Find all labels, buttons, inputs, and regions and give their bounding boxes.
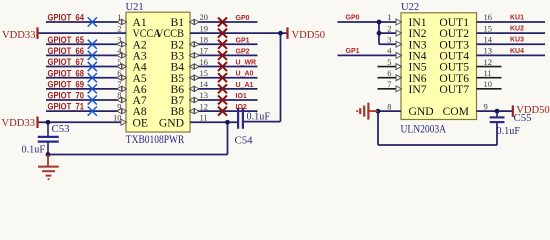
svg-text:19: 19 [200, 23, 209, 33]
ground symbol (sideways, U22 pin 8) [357, 103, 378, 120]
U21 pin number 11 [200, 112, 208, 122]
U22 pin number 14 [484, 34, 493, 44]
junction VDD50/C54 [278, 31, 283, 36]
svg-text:COM: COM [443, 105, 469, 118]
stub U22 IN5 [378, 66, 402, 68]
no-ERC marker (blue X) on GPIOT_70 [88, 95, 97, 104]
svg-text:GPIOT_68: GPIOT_68 [48, 68, 85, 78]
svg-text:U_A1: U_A1 [236, 82, 254, 89]
U21 pin number 6 [117, 68, 121, 78]
U21 pin name GND [159, 116, 184, 129]
wire VDD50 junction down to C54 [243, 33, 280, 121]
svg-text:C54: C54 [235, 135, 254, 147]
junction pin8/ground [376, 109, 381, 114]
U21 pin number 8 [117, 90, 121, 100]
U22 input pin glyph IN2 [396, 30, 402, 36]
wire stub U21 right row 6 [190, 77, 258, 79]
U22 pin name IN3 [409, 38, 427, 51]
C54 designator [235, 135, 254, 147]
U21 pin number 2 [117, 23, 121, 33]
svg-text:11: 11 [200, 112, 208, 122]
net label GPIOT_66 [48, 46, 85, 56]
wire GP0 vertical tie IN1-IN3 [378, 22, 380, 44]
U22 pin number 9 [484, 101, 488, 111]
svg-text:6: 6 [387, 68, 391, 78]
wire net KU3 from U22 pin 14 [477, 43, 546, 45]
U22 pin name GND [409, 105, 434, 118]
svg-text:10: 10 [113, 112, 122, 122]
power port VDD33 (top) [2, 27, 38, 41]
svg-text:13: 13 [200, 90, 209, 100]
svg-text:U21: U21 [126, 2, 144, 13]
U22 pin name OUT1 [439, 16, 469, 29]
svg-text:GPIOT_71: GPIOT_71 [48, 102, 85, 112]
svg-text:1: 1 [117, 12, 121, 22]
svg-text:GPIOT_70: GPIOT_70 [48, 91, 85, 101]
wire net GPIOT_70 to U21 pin [46, 99, 126, 101]
net label GPIOT_70 [48, 91, 85, 101]
U21 pin name A3 [133, 50, 147, 63]
svg-text:8: 8 [387, 101, 391, 111]
U21 pin number 18 [200, 34, 209, 44]
wire ground rail bottom left [48, 154, 228, 156]
svg-text:GP1: GP1 [346, 48, 360, 55]
U21 pin name B3 [170, 50, 184, 63]
U21 pin name B2 [170, 38, 184, 51]
svg-text:KU4: KU4 [510, 48, 524, 55]
svg-text:16: 16 [200, 57, 209, 67]
svg-text:OUT7: OUT7 [439, 83, 469, 96]
U21 pin number 4 [117, 46, 122, 56]
wire net GPIOT_68 to U21 pin [46, 77, 126, 79]
junction tie/IN2 [377, 31, 382, 36]
svg-text:10: 10 [484, 79, 493, 89]
svg-text:GPIOT_69: GPIOT_69 [48, 79, 85, 89]
svg-text:U22: U22 [401, 2, 419, 13]
svg-text:C53: C53 [52, 123, 70, 135]
wire U22 pin 9 COM to VDD50 [477, 110, 513, 112]
U21 pin name B8 [170, 105, 184, 118]
U21 pin number 15 [200, 68, 209, 78]
U22 pin name IN5 [409, 61, 427, 74]
U22 pin number 7 [387, 79, 391, 89]
no-ERC marker (blue X) on GPIOT_68 [88, 73, 97, 82]
U21 bidirectional pin glyph row 1 left [117, 19, 127, 24]
wire U22 pin 8 GND [378, 110, 401, 112]
U21 pin name A8 [133, 105, 147, 118]
C53 designator [52, 123, 70, 135]
wire stub U21 right row 4 [190, 54, 258, 56]
no-ERC marker (red X) U21 right row 2 [218, 29, 227, 38]
U21 bidirectional pin glyph row 1 right [190, 19, 200, 24]
U22 pin number 8 [387, 101, 391, 111]
net label U_A0 [236, 71, 254, 78]
net label GPIOT_67 [48, 57, 85, 67]
svg-text:KU3: KU3 [510, 37, 524, 44]
net label GPIOT_64 [48, 13, 85, 23]
svg-text:11: 11 [484, 68, 492, 78]
U22 pin number 2 [387, 23, 391, 33]
U21 pin number 20 [200, 12, 209, 22]
U21 bidirectional pin glyph row 8 left [117, 97, 127, 102]
no-ERC marker (red X) U21 right row 5 [218, 62, 227, 71]
svg-text:IO2: IO2 [236, 104, 247, 111]
U21 pin name A6 [133, 83, 147, 96]
no-ERC marker (blue X) on GPIOT_64 [88, 17, 97, 26]
U22 designator [401, 2, 419, 13]
C55 value 0.1uF [497, 126, 521, 137]
U21 pin number 10 [113, 112, 122, 122]
wire net GP0 to U22 IN1 [338, 21, 402, 23]
U22 pin number 10 [484, 79, 493, 89]
U21 bidirectional pin glyph row 7 right [190, 86, 200, 91]
stub U22 IN6 [378, 77, 402, 79]
wire net KU4 from U22 pin 13 [477, 54, 546, 56]
stub U22 OUT5 [477, 66, 502, 68]
no-ERC marker (blue X) on GPIOT_66 [88, 51, 97, 60]
net label IO2 [236, 104, 247, 111]
net label GPIOT_71 [48, 102, 85, 112]
U21 pin number 16 [200, 57, 209, 67]
U21 pin name A1 [133, 16, 147, 29]
capacitor C53 [38, 122, 59, 154]
no-ERC marker (blue X) on GPIOT_69 [88, 84, 97, 93]
svg-text:1: 1 [387, 12, 391, 22]
wire U21 pin 19 VCCB to VDD50 [190, 32, 288, 34]
svg-text:GPIOT_64: GPIOT_64 [48, 13, 85, 23]
svg-text:3: 3 [387, 34, 391, 44]
no-ERC marker (red X) U21 right row 1 [218, 18, 227, 27]
wire rail up to C55 [496, 123, 498, 145]
U21 bidirectional pin glyph row 9 right [190, 109, 200, 114]
power port VDD33 (bottom) [1, 117, 37, 130]
U22 pin number 15 [484, 23, 493, 33]
net label GPIOT_69 [48, 79, 85, 89]
svg-text:2: 2 [387, 23, 391, 33]
wire stub U21 right row 9 [190, 110, 258, 112]
no-ERC marker (blue X) on GPIOT_65 [88, 40, 97, 49]
U21 pin number 12 [200, 101, 209, 111]
wire net GPIOT_69 to U21 pin [46, 88, 126, 90]
junction pin11/ground rail [225, 120, 230, 125]
U21 pin name A2 [133, 38, 147, 51]
wire pin8 down to bottom rail [377, 111, 379, 145]
svg-text:IN7: IN7 [409, 83, 427, 96]
U22 pin name OUT5 [439, 61, 469, 74]
wire tie to IN2 [379, 32, 401, 34]
svg-text:5: 5 [387, 57, 391, 67]
U22 pin number 12 [484, 57, 493, 67]
wire VDD33 to U21 pin 10 OE [38, 121, 127, 123]
U21 pin name OE [133, 116, 148, 129]
svg-text:ULN2003A: ULN2003A [401, 123, 447, 135]
IC U21 TXB0108PWR body [126, 12, 190, 132]
svg-text:0.1uF: 0.1uF [497, 126, 521, 137]
svg-text:18: 18 [200, 34, 209, 44]
U21 pin number 14 [200, 79, 209, 89]
net label KU4 [510, 48, 524, 55]
U21 bidirectional pin glyph row 7 left [117, 86, 127, 91]
U22 pin number 11 [484, 68, 492, 78]
U22 pin name COM [443, 105, 469, 118]
svg-text:5: 5 [117, 57, 121, 67]
U21 bidirectional pin glyph row 6 left [117, 75, 127, 80]
U21 pin name B6 [170, 83, 184, 96]
U21 pin name B4 [170, 61, 184, 74]
svg-text:17: 17 [200, 46, 209, 56]
U21 comment TXB0108PWR [126, 134, 185, 146]
wire tie to IN3 [379, 43, 401, 45]
U21 pin number 9 [117, 101, 121, 111]
U22 pin name OUT2 [439, 27, 469, 40]
U22 pin name IN6 [409, 72, 427, 85]
wire stub U21 right row 5 [190, 66, 258, 68]
U21 pin number 3 [117, 34, 121, 44]
C54 value 0.1uF [247, 112, 271, 123]
U21 bidirectional pin glyph row 8 right [190, 97, 200, 102]
U22 pin number 1 [387, 12, 391, 22]
junction COM/C55 [495, 109, 500, 114]
U21 pin number 19 [200, 23, 209, 33]
power port VDD50 (bottom) [513, 105, 550, 117]
net label GP1 (U22) [346, 48, 360, 55]
U22 input pin glyph IN4 [396, 52, 402, 58]
net label U_WR [236, 60, 257, 67]
svg-text:GP1: GP1 [236, 37, 250, 44]
U22 input pin glyph IN1 [396, 19, 402, 25]
svg-text:9: 9 [484, 101, 488, 111]
U21 bidirectional pin glyph row 6 right [190, 75, 200, 80]
wire net GPIOT_65 to U21 pin [46, 43, 126, 45]
svg-text:12: 12 [484, 57, 493, 67]
net label GP1 [236, 37, 250, 44]
U22 pin number 16 [484, 12, 493, 22]
svg-text:13: 13 [484, 46, 493, 56]
svg-text:GPIOT_65: GPIOT_65 [48, 35, 85, 45]
net label U_A1 [236, 82, 254, 89]
U22 pin name OUT3 [439, 38, 469, 51]
svg-text:VDD33: VDD33 [2, 30, 36, 41]
wire VDD33 to U21 pin 2 VCCA [38, 32, 127, 34]
U22 pin name OUT6 [439, 72, 469, 85]
wire net KU2 from U22 pin 15 [477, 32, 546, 34]
U21 pin number 17 [200, 46, 209, 56]
U21 pin name B1 [170, 16, 184, 29]
svg-text:9: 9 [117, 101, 121, 111]
net label GP2 [236, 48, 250, 55]
svg-text:20: 20 [200, 12, 209, 22]
svg-text:14: 14 [200, 79, 209, 89]
U22 pin number 6 [387, 68, 391, 78]
U22 input pin glyph IN5 [396, 64, 402, 70]
wire net GPIOT_66 to U21 pin [46, 54, 126, 56]
U21 input pin glyph OE [121, 119, 127, 125]
wire U21 pin 11 GND [190, 121, 238, 123]
U21 pin name VCCB [156, 27, 184, 40]
svg-text:GP0: GP0 [236, 15, 250, 22]
U22 pin name IN1 [409, 16, 427, 29]
svg-text:7: 7 [387, 79, 391, 89]
svg-text:TXB0108PWR: TXB0108PWR [126, 134, 185, 146]
net label KU1 [510, 14, 524, 21]
net label KU3 [510, 37, 524, 44]
U22 pin number 13 [484, 46, 493, 56]
U21 bidirectional pin glyph row 3 right [190, 42, 200, 47]
svg-text:GND: GND [409, 105, 434, 118]
svg-text:16: 16 [484, 12, 493, 22]
junction GP0/IN1 [377, 20, 382, 25]
IC U22 ULN2003A body [401, 13, 477, 120]
U21 pin name A7 [133, 94, 147, 107]
svg-text:GPIOT_67: GPIOT_67 [48, 57, 85, 67]
U22 pin name IN4 [409, 50, 427, 63]
no-ERC marker (red X) U21 right row 6 [218, 73, 227, 82]
U21 pin number 1 [117, 12, 121, 22]
stub U22 OUT7 [477, 88, 502, 90]
svg-text:15: 15 [200, 68, 209, 78]
net label GPIOT_68 [48, 68, 85, 78]
svg-text:U_A0: U_A0 [236, 71, 254, 78]
net label KU2 [510, 26, 524, 33]
stub U22 IN7 [378, 88, 402, 90]
net label GP0 (U22) [346, 14, 360, 21]
U22 pin name IN7 [409, 83, 427, 96]
U22 input pin glyph IN3 [396, 41, 402, 47]
svg-text:2: 2 [117, 23, 121, 33]
svg-text:KU2: KU2 [510, 26, 524, 33]
wire net GPIOT_71 to U21 pin [46, 110, 126, 112]
wire stub U21 right row 7 [190, 88, 258, 90]
svg-text:GND: GND [159, 116, 184, 129]
wire net GP1 to U22 IN4 [338, 54, 402, 56]
U21 bidirectional pin glyph row 9 left [117, 109, 127, 114]
svg-text:0.1uF: 0.1uF [22, 145, 46, 156]
U22 input pin glyph IN6 [396, 75, 402, 81]
svg-text:OE: OE [133, 116, 148, 129]
svg-text:VDD33: VDD33 [1, 118, 35, 129]
no-ERC marker (blue X) on GPIOT_71 [88, 107, 97, 116]
stub U22 OUT6 [477, 77, 502, 79]
U22 input pin glyph IN7 [396, 86, 402, 92]
C55 designator [514, 112, 532, 124]
no-ERC marker (red X) U21 right row 4 [218, 51, 227, 60]
svg-text:0.1uF: 0.1uF [247, 112, 271, 123]
power port VDD50 (top) [288, 27, 326, 41]
ground symbol (bottom left) [38, 155, 59, 180]
svg-text:15: 15 [484, 23, 493, 33]
U21 bidirectional pin glyph row 3 left [117, 42, 127, 47]
wire net GPIOT_64 to U21 pin [46, 21, 126, 23]
wire pin11 junction down to rail [227, 122, 229, 154]
U21 pin name A4 [133, 61, 147, 74]
svg-text:IO1: IO1 [236, 93, 247, 100]
svg-text:6: 6 [117, 68, 121, 78]
U22 pin number 4 [387, 46, 392, 56]
net label GPIOT_65 [48, 35, 85, 45]
svg-text:U_WR: U_WR [236, 60, 257, 67]
junction C53 to ground rail [46, 152, 51, 157]
U21 bidirectional pin glyph row 4 left [117, 53, 127, 58]
U21 designator [126, 2, 144, 13]
svg-text:3: 3 [117, 34, 121, 44]
U22 pin number 3 [387, 34, 391, 44]
no-ERC marker (red X) U21 right row 3 [218, 40, 227, 49]
U21 pin number 13 [200, 90, 209, 100]
no-ERC marker (red X) U21 right row 9 [218, 107, 227, 116]
net label IO1 [236, 93, 247, 100]
no-ERC marker (red X) U21 right row 7 [218, 84, 227, 93]
svg-text:GP2: GP2 [236, 48, 250, 55]
U21 bidirectional pin glyph row 4 right [190, 53, 200, 58]
svg-text:VDD50: VDD50 [516, 105, 550, 116]
svg-text:7: 7 [117, 79, 121, 89]
U21 pin name VCCA [133, 27, 162, 40]
net label GP0 [236, 15, 250, 22]
junction at C53 top [46, 120, 51, 125]
svg-text:VDD50: VDD50 [292, 30, 326, 41]
wire net GPIOT_67 to U21 pin [46, 66, 126, 68]
U21 bidirectional pin glyph row 5 left [117, 64, 127, 69]
svg-text:GP0: GP0 [346, 14, 360, 21]
wire stub U21 right row 1 [190, 21, 258, 23]
wire stub U21 right row 3 [190, 43, 258, 45]
U21 pin name A5 [133, 72, 147, 85]
U22 pin name OUT7 [439, 83, 469, 96]
svg-text:GPIOT_66: GPIOT_66 [48, 46, 85, 56]
U21 pin name B7 [170, 94, 184, 107]
no-ERC marker (red X) U21 right row 8 [218, 95, 227, 104]
svg-text:8: 8 [117, 90, 121, 100]
U22 pin number 5 [387, 57, 391, 67]
U21 bidirectional pin glyph row 5 right [190, 64, 200, 69]
U22 comment ULN2003A [401, 123, 447, 135]
U22 pin name OUT4 [439, 50, 469, 63]
svg-text:12: 12 [200, 101, 209, 111]
U21 pin number 7 [117, 79, 121, 89]
no-ERC marker (blue X) on GPIOT_67 [88, 62, 97, 71]
C53 value 0.1uF [22, 145, 46, 156]
U21 pin number 5 [117, 57, 121, 67]
U22 pin name IN2 [409, 27, 427, 40]
wire net KU1 from U22 pin 16 [477, 21, 546, 23]
wire stub U21 right row 8 [190, 99, 258, 101]
svg-text:KU1: KU1 [510, 14, 524, 21]
U21 pin name B5 [170, 72, 184, 85]
wire bottom rail (U22) [378, 144, 497, 146]
svg-text:14: 14 [484, 34, 493, 44]
capacitor C54 [238, 108, 243, 129]
capacitor C55 [490, 111, 505, 122]
